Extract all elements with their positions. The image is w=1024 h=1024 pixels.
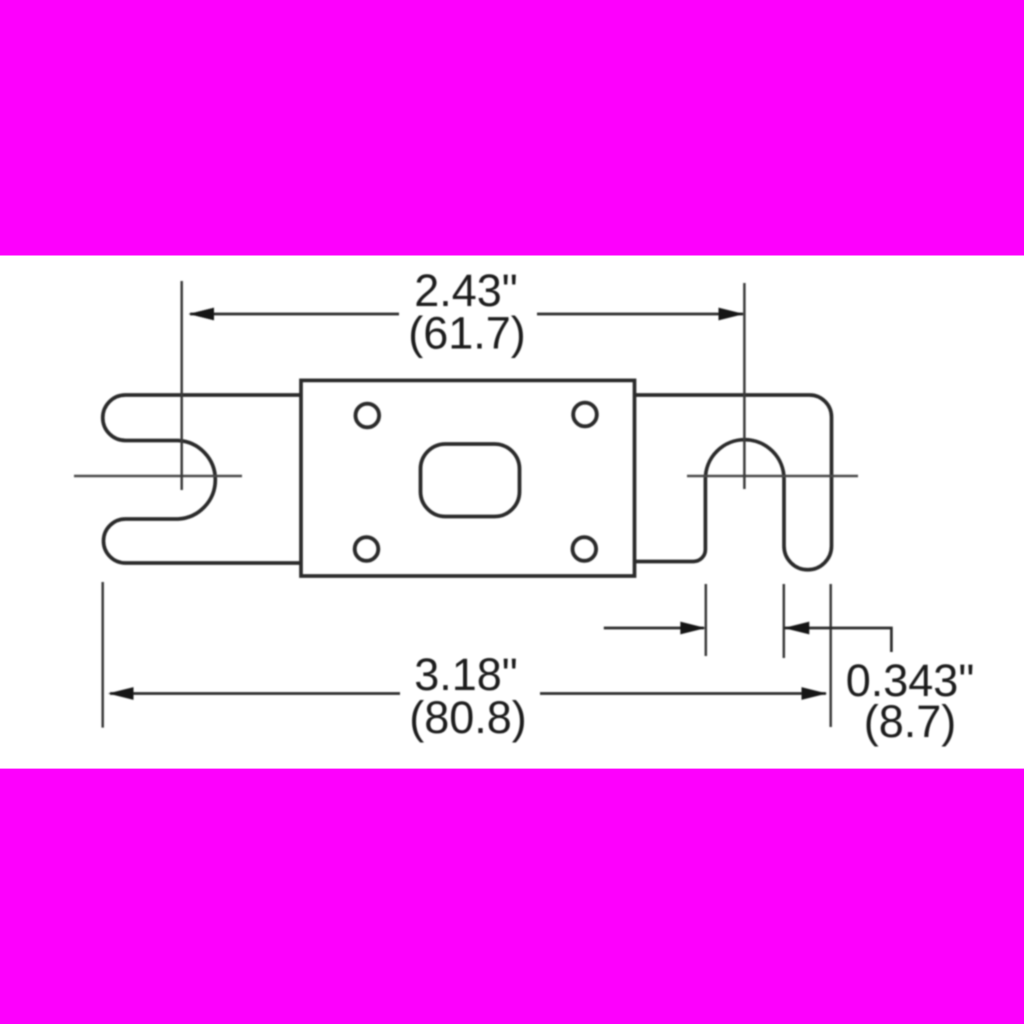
arrowhead 3.18 right	[802, 687, 828, 700]
extension line notch-right (0.343 dim)	[783, 584, 786, 658]
right centerline	[687, 475, 858, 478]
left centerline	[74, 475, 242, 478]
svg-text:(80.8): (80.8)	[409, 692, 527, 743]
arrowhead 0.343 right (pointing left)	[784, 622, 810, 635]
dimension line 2.43 right segment	[537, 313, 743, 316]
dimension line 2.43 left segment	[190, 313, 399, 316]
mounting hole bottom-left	[355, 537, 379, 561]
extension line far-right (3.18 dim)	[829, 584, 832, 727]
0.343 left arrow tail	[604, 627, 704, 630]
extension line notch-left (0.343 dim)	[705, 584, 708, 656]
central obround window	[421, 444, 520, 517]
top magenta band	[0, 0, 1024, 256]
0.343 right leader with elbow	[784, 628, 892, 652]
left slotted terminal tab	[103, 395, 301, 563]
right notched terminal tab	[635, 395, 832, 570]
bottom magenta band	[0, 769, 1024, 1024]
dimension line 3.18 right segment	[540, 692, 826, 695]
dimension line 3.18 left segment	[110, 692, 400, 695]
arrowhead 2.43 right	[719, 308, 745, 321]
mounting hole top-right	[573, 403, 597, 427]
mounting hole top-left	[356, 404, 380, 428]
svg-text:(61.7): (61.7)	[408, 308, 526, 359]
arrowhead 3.18 left	[108, 687, 134, 700]
svg-text:(8.7): (8.7)	[864, 696, 957, 747]
extension line left (2.43 dim)	[180, 281, 183, 490]
fuse body (center block)	[301, 380, 635, 576]
extension line far-left (3.18 dim)	[101, 582, 104, 728]
mounting hole bottom-right	[573, 537, 597, 561]
arrowhead 0.343 left (pointing right)	[680, 622, 706, 635]
arrowhead 2.43 left	[189, 308, 215, 321]
extension line right (2.43 dim)	[743, 283, 746, 489]
